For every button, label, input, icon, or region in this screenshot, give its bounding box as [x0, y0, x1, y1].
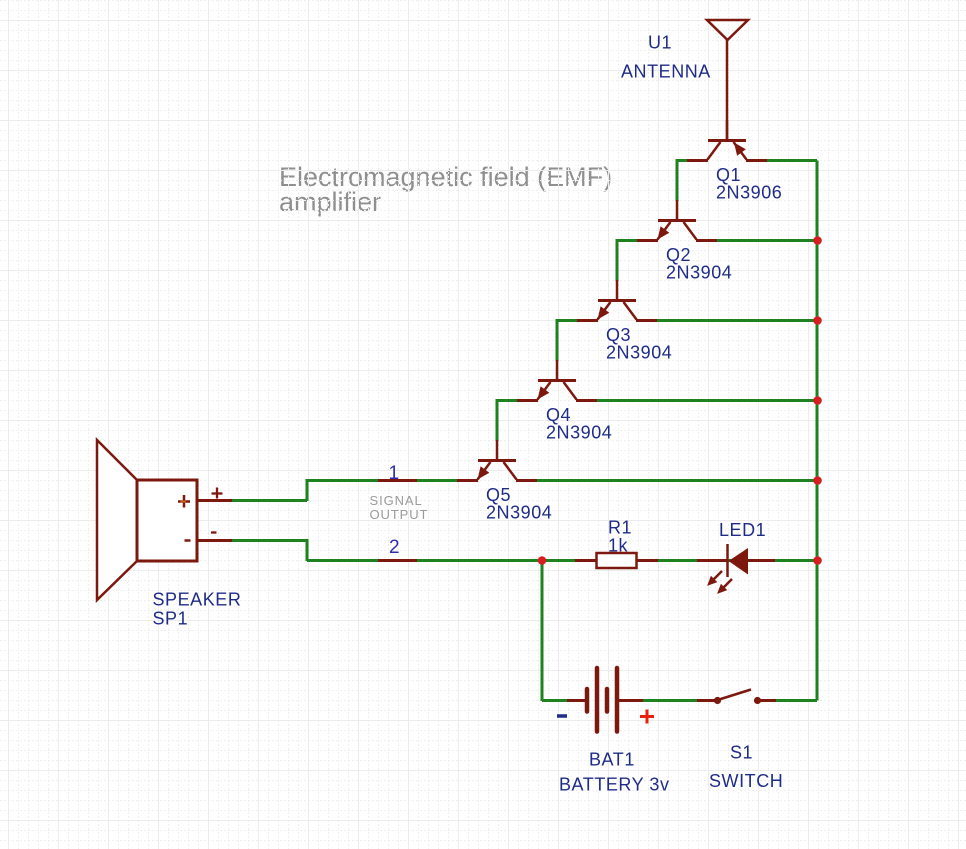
svg-text:ANTENNA: ANTENNA — [621, 62, 711, 82]
svg-text:SIGNAL: SIGNAL — [370, 493, 423, 508]
svg-text:1: 1 — [388, 463, 399, 484]
svg-text:2N3904: 2N3904 — [666, 263, 732, 283]
svg-text:2N3904: 2N3904 — [486, 503, 552, 523]
svg-text:S1: S1 — [730, 743, 753, 763]
svg-text:2: 2 — [389, 537, 400, 558]
svg-text:2N3904: 2N3904 — [606, 343, 672, 363]
svg-text:OUTPUT: OUTPUT — [370, 507, 429, 522]
svg-text:BATTERY 3v: BATTERY 3v — [559, 775, 670, 795]
svg-text:U1: U1 — [648, 33, 672, 53]
svg-text:BAT1: BAT1 — [589, 750, 635, 770]
svg-text:LED1: LED1 — [719, 520, 766, 540]
svg-text:R1: R1 — [608, 518, 632, 538]
svg-text:2N3906: 2N3906 — [716, 183, 782, 203]
svg-text:SPEAKER: SPEAKER — [153, 590, 242, 610]
svg-text:2N3904: 2N3904 — [546, 423, 612, 443]
svg-text:SWITCH: SWITCH — [709, 771, 783, 791]
svg-text:SP1: SP1 — [153, 609, 189, 629]
svg-text:1k: 1k — [608, 536, 629, 556]
